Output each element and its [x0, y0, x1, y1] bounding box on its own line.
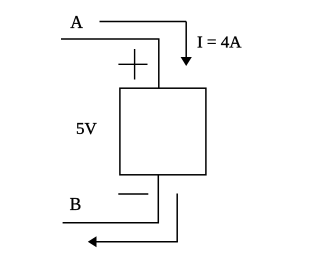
wire vertical from element bottom: [157, 175, 159, 223]
wire vertical drop at right corner: [185, 22, 187, 59]
svg-text:5V: 5V: [76, 119, 98, 138]
wire vertical into element top: [158, 39, 160, 88]
wire bottom return horizontal: [96, 241, 178, 243]
return current arrow (left): [88, 236, 97, 247]
wire vertical return segment: [176, 194, 178, 243]
polarity minus sign: [118, 193, 148, 195]
wire from terminal A to element top: [61, 38, 160, 40]
svg-text:I = 4A: I = 4A: [197, 33, 242, 52]
current arrow I (down): [181, 57, 192, 66]
svg-text:B: B: [70, 194, 82, 214]
wire top horizontal from node A to corner: [100, 21, 187, 23]
svg-text:A: A: [70, 12, 83, 32]
polarity plus sign: [118, 49, 147, 80]
wire from terminal B to element bottom: [63, 222, 159, 224]
element box 5V: [120, 88, 206, 175]
